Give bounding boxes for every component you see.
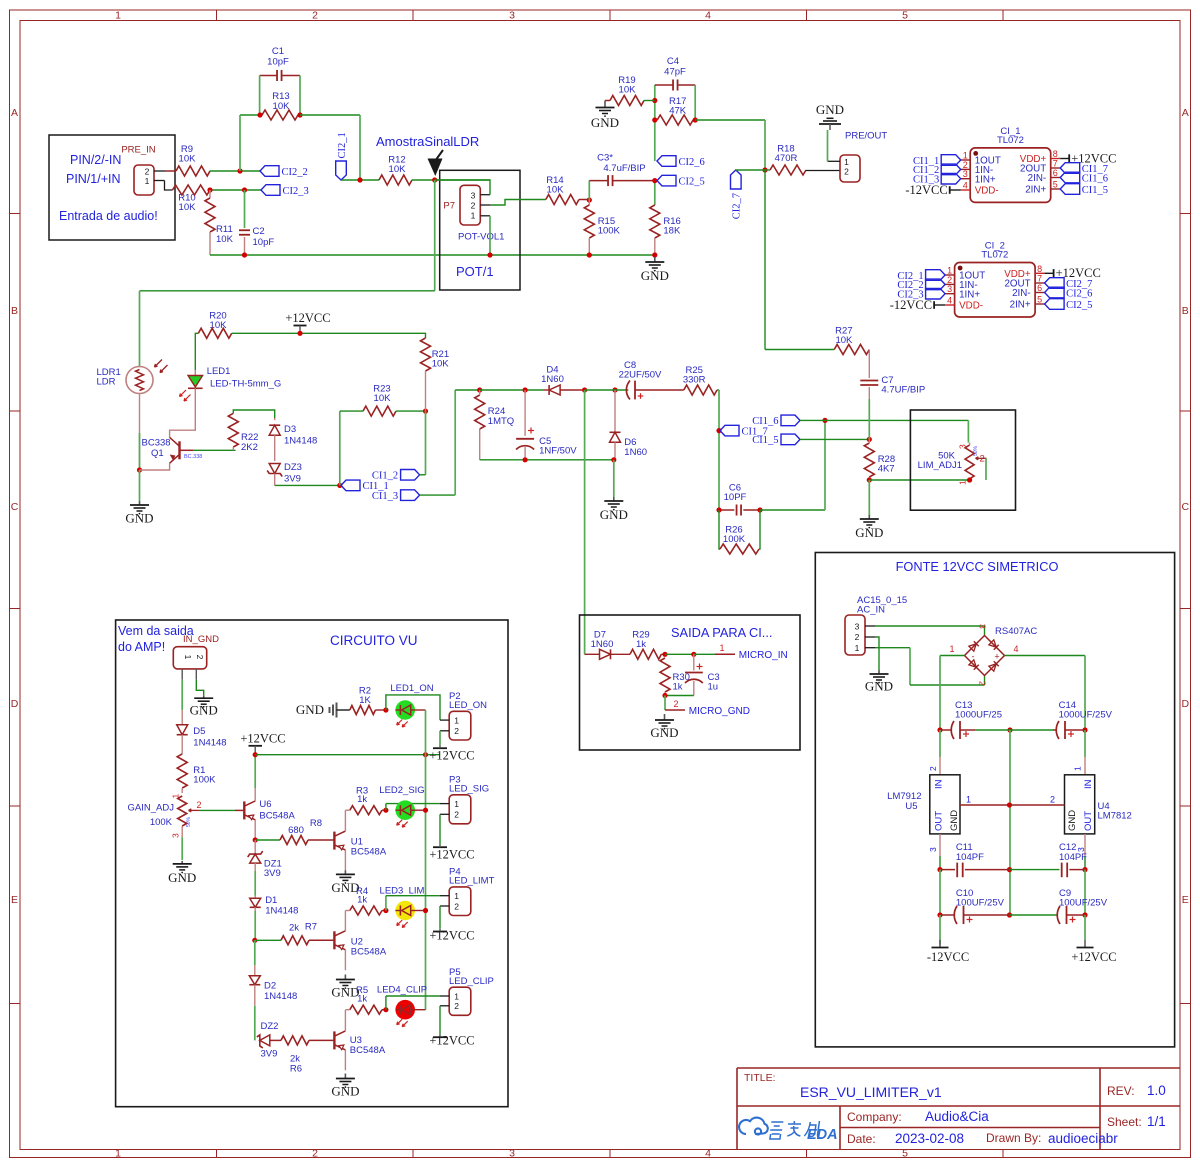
svg-text:Q1: Q1 <box>151 448 164 459</box>
svg-text:CI2_5: CI2_5 <box>679 176 705 187</box>
svg-text:2: 2 <box>844 166 849 176</box>
EasyEDA logo <box>739 1118 768 1135</box>
junction C8 left D6 top <box>612 387 617 392</box>
CI_1 pin 1 1OUT <box>961 159 971 161</box>
svg-text:GND: GND <box>1067 810 1078 831</box>
svg-text:AC_IN: AC_IN <box>857 605 885 616</box>
wire C6 right up to CI1_6 branch <box>760 509 825 511</box>
svg-text:do AMP!: do AMP! <box>118 640 165 654</box>
svg-text:GND: GND <box>125 511 153 526</box>
svg-text:8: 8 <box>1053 149 1058 159</box>
wire R27 left <box>765 349 834 351</box>
svg-text:E: E <box>1182 894 1189 906</box>
junction C2 bottom <box>242 252 247 257</box>
svg-text:1k: 1k <box>357 794 367 805</box>
power +12VCC P3 <box>433 846 447 848</box>
svg-text:3: 3 <box>471 190 476 200</box>
junction R10/R11 node <box>207 187 212 192</box>
wire down to R27 <box>764 170 766 350</box>
svg-text:REV:: REV: <box>1107 1084 1135 1098</box>
ground under D6 <box>613 460 615 497</box>
CI_1 pin 5 2IN+ <box>1051 188 1061 190</box>
U4 OUT down <box>1084 834 1086 856</box>
svg-text:+12VCC: +12VCC <box>429 1034 474 1048</box>
wire LDR bottom <box>139 394 141 471</box>
svg-text:2023-02-08: 2023-02-08 <box>895 1131 964 1146</box>
svg-text:1: 1 <box>454 799 459 809</box>
junction R19 right <box>652 98 657 103</box>
junction R16 bottom rail <box>652 252 657 257</box>
svg-text:2: 2 <box>978 681 988 686</box>
junction U6 emitter node <box>253 837 258 842</box>
junction R24 top <box>477 387 482 392</box>
svg-text:1IN+: 1IN+ <box>975 174 996 185</box>
ground under R16 rail <box>654 257 656 262</box>
svg-text:1: 1 <box>454 716 459 726</box>
wire to MICRO_GND <box>664 696 666 711</box>
svg-text:330R: 330R <box>683 375 706 386</box>
wire to MICRO_IN <box>694 653 715 655</box>
svg-text:LED-TH-5mm_G: LED-TH-5mm_G <box>210 379 281 390</box>
svg-text:GND: GND <box>816 102 844 117</box>
junction R17 left <box>652 117 657 122</box>
junction C6 left <box>716 507 721 512</box>
wire CI2_1 to R12 <box>341 179 379 181</box>
svg-text:6: 6 <box>1053 168 1058 178</box>
net flag CI2_5 <box>657 175 676 186</box>
svg-text:DZ3: DZ3 <box>284 462 302 473</box>
svg-text:10K: 10K <box>216 234 234 245</box>
wire R24 bottom rail <box>480 459 614 461</box>
svg-text:EDA: EDA <box>807 1127 838 1143</box>
svg-text:2: 2 <box>312 1148 318 1160</box>
wire R28 bottom into LIM box <box>869 479 969 481</box>
junction C9 right <box>1082 912 1087 917</box>
svg-text:U5: U5 <box>905 801 917 812</box>
wire LED to rail row1 <box>415 709 426 711</box>
svg-text:2: 2 <box>928 766 938 771</box>
U2 collector wire to R4 <box>344 911 346 931</box>
wire D2 to DZ2 <box>254 1006 256 1041</box>
svg-text:+12VCC: +12VCC <box>240 732 285 746</box>
wire LED to rail <box>415 910 426 912</box>
junction +12VCC rail <box>297 331 302 336</box>
svg-text:8: 8 <box>1037 264 1042 274</box>
svg-text:LED_ON: LED_ON <box>449 700 487 711</box>
svg-text:100K: 100K <box>598 226 621 237</box>
svg-text:R8: R8 <box>310 818 322 829</box>
svg-text:GND: GND <box>600 507 628 522</box>
svg-text:VDD-: VDD- <box>975 186 999 197</box>
svg-text:GND: GND <box>296 702 324 717</box>
svg-text:LED4_CLIP: LED4_CLIP <box>377 985 427 996</box>
svg-text:LED1_ON: LED1_ON <box>390 683 433 694</box>
junction R29/R30 <box>662 652 667 657</box>
probe arrow AmostraSinalLDR <box>428 159 443 177</box>
U4 GND lead <box>1010 804 1065 806</box>
junction R5 LED <box>383 1007 388 1012</box>
net flag CI1_3 <box>941 173 961 184</box>
svg-text:+12VCC: +12VCC <box>429 929 474 943</box>
net flag CI1_6 <box>781 415 800 426</box>
wire C4 R17 left column <box>654 85 656 161</box>
POT/1 annotation box <box>440 170 520 290</box>
svg-text:CIRCUITO VU: CIRCUITO VU <box>330 633 418 648</box>
svg-text:A: A <box>11 107 18 119</box>
svg-text:1: 1 <box>454 891 459 901</box>
wire LED to rail <box>415 1009 426 1011</box>
svg-text:3: 3 <box>978 624 988 629</box>
svg-text:BC548A: BC548A <box>351 847 387 858</box>
junction CI1_1 node <box>337 483 342 488</box>
svg-text:3: 3 <box>928 847 938 852</box>
net flag CI2_3 <box>926 288 946 299</box>
svg-text:TL072: TL072 <box>981 250 1008 261</box>
svg-text:1: 1 <box>1073 766 1083 771</box>
junction R28 bottom <box>867 477 872 482</box>
svg-text:104PF: 104PF <box>1059 852 1087 863</box>
svg-text:1k: 1k <box>636 639 646 650</box>
wire rail R24-D4 <box>480 389 544 391</box>
svg-text:2K2: 2K2 <box>241 442 258 453</box>
wire LED1 cathode to Q1 collector <box>170 388 196 437</box>
CI_2 pin 3 1IN+ <box>945 293 955 295</box>
svg-text:3: 3 <box>509 10 515 22</box>
svg-text:D3: D3 <box>284 424 296 435</box>
svg-text:Drawn By:: Drawn By: <box>986 1131 1041 1145</box>
svg-text:C1: C1 <box>272 46 284 57</box>
wire emitter node to R8 <box>255 839 280 841</box>
svg-text:50%: 50% <box>973 445 979 456</box>
svg-text:1NF/50V: 1NF/50V <box>539 446 577 457</box>
LED LED1_ON green <box>395 700 415 720</box>
svg-text:SAIDA PARA CI...: SAIDA PARA CI... <box>671 625 772 640</box>
svg-text:GND: GND <box>168 870 196 885</box>
wire GAIN_ADJ bottom to GND <box>181 826 183 837</box>
net flag CI2_2 <box>926 279 946 290</box>
junction LED rail <box>423 808 428 813</box>
svg-text:C: C <box>11 501 19 513</box>
svg-text:5: 5 <box>1037 295 1042 305</box>
wire R17 to vertical x765 <box>695 119 765 121</box>
svg-text:2IN+: 2IN+ <box>1010 300 1031 311</box>
ground IN_GND <box>203 695 205 698</box>
svg-text:GND: GND <box>190 703 218 718</box>
wire LED rail vertical <box>425 710 427 1010</box>
wire right column to U4 <box>1084 730 1086 757</box>
svg-text:10K: 10K <box>432 359 450 370</box>
svg-text:18K: 18K <box>663 226 681 237</box>
junction R23 right R21 bottom <box>423 409 428 414</box>
svg-text:1k: 1k <box>673 682 683 693</box>
SAIDA PARA CI annotation box <box>580 615 801 750</box>
svg-text:LIM_ADJ1: LIM_ADJ1 <box>918 460 962 471</box>
svg-text:Audio&Cia: Audio&Cia <box>925 1109 989 1124</box>
wire PRE/OUT pin1 to GND <box>827 130 829 161</box>
wire R29 to C3 <box>665 653 694 655</box>
op-amp CI_2 TL072 <box>955 263 1036 318</box>
svg-text:47pF: 47pF <box>664 67 686 78</box>
svg-text:CI2_2: CI2_2 <box>282 167 308 178</box>
svg-text:4: 4 <box>705 1148 711 1160</box>
CI_1 pin 3 1IN+ <box>961 178 971 180</box>
wire left column to U5 <box>939 730 941 757</box>
svg-text:1.0: 1.0 <box>1147 1083 1166 1098</box>
svg-text:D5: D5 <box>193 726 205 737</box>
svg-text:PRE_IN: PRE_IN <box>121 145 155 156</box>
svg-text:D2: D2 <box>264 981 276 992</box>
svg-text:4.7uF/BIP: 4.7uF/BIP <box>603 163 645 174</box>
svg-text:MICRO_IN: MICRO_IN <box>739 650 788 661</box>
ground under R28 <box>868 480 870 516</box>
svg-text:1N60: 1N60 <box>624 447 647 458</box>
svg-text:1: 1 <box>949 644 954 654</box>
net flag CI1_7 <box>720 425 739 436</box>
Q1 base wire <box>180 449 194 451</box>
net flag CI1_5 <box>1060 184 1080 195</box>
svg-text:D1: D1 <box>265 895 277 906</box>
svg-text:Company:: Company: <box>847 1110 902 1124</box>
svg-text:CI2_6: CI2_6 <box>1066 288 1092 299</box>
wire R9 to CI2_2 <box>210 170 260 172</box>
junction R10/C2 node <box>242 187 247 192</box>
svg-text:2IN+: 2IN+ <box>1025 185 1046 196</box>
wire bridge minus to left column <box>940 655 965 657</box>
net flag CI1_5 <box>781 434 800 445</box>
svg-text:BC548A: BC548A <box>351 947 387 958</box>
wire R10 to CI2_3 <box>210 189 261 191</box>
svg-text:CI1_6: CI1_6 <box>752 416 778 427</box>
svg-text:1N4148: 1N4148 <box>193 738 226 749</box>
wire center column down <box>1009 730 1011 915</box>
junction R13 left <box>257 112 262 117</box>
svg-text:-12VCC: -12VCC <box>905 183 947 197</box>
svg-text:LED_CLIP: LED_CLIP <box>449 976 494 987</box>
title block <box>737 1068 1180 1150</box>
svg-text:C: C <box>1182 501 1190 513</box>
junction C14 right <box>1082 727 1087 732</box>
svg-text:10K: 10K <box>374 393 392 404</box>
svg-text:10K: 10K <box>179 202 197 213</box>
power +12VCC P4 <box>433 931 447 933</box>
svg-text:BC548A: BC548A <box>350 1045 386 1056</box>
svg-text:P7: P7 <box>443 201 455 212</box>
junction C6 right <box>757 507 762 512</box>
svg-text:POT-VOL1: POT-VOL1 <box>458 232 504 243</box>
svg-text:audioeciabr: audioeciabr <box>1048 1131 1118 1146</box>
svg-text:2: 2 <box>1050 795 1055 805</box>
svg-text:470R: 470R <box>775 153 798 164</box>
svg-text:+12VCC: +12VCC <box>285 311 330 325</box>
svg-text:+12VCC: +12VCC <box>429 848 474 862</box>
input annotation box <box>49 135 175 240</box>
wire AC pin3 to bridge <box>875 626 985 636</box>
junction C3 top <box>691 652 696 657</box>
net flag CI1_2 <box>941 164 961 175</box>
Q1 emitter wire <box>140 464 170 471</box>
svg-text:LM7812: LM7812 <box>1098 811 1132 822</box>
svg-text:1: 1 <box>115 1148 121 1160</box>
wire R25 right down <box>717 389 719 391</box>
FONTE 12VCC SIMETRICO annotation box <box>815 553 1174 1047</box>
svg-text:OUT: OUT <box>934 811 945 831</box>
svg-text:+12VCC: +12VCC <box>1071 950 1116 964</box>
wire P3 pin2 to +12VCC <box>439 814 441 844</box>
svg-text:10K: 10K <box>619 85 637 96</box>
junction LIM pin1 <box>967 477 972 482</box>
junction R28 top C7 bottom <box>867 437 872 442</box>
junction C5 bottom <box>523 457 528 462</box>
CI_2 pin 7 2OUT <box>1035 282 1045 284</box>
svg-text:10K: 10K <box>547 185 565 196</box>
svg-text:2: 2 <box>145 166 150 176</box>
svg-text:4: 4 <box>705 10 711 22</box>
LIM_ADJ1 annotation box <box>910 410 1015 510</box>
svg-text:4: 4 <box>947 296 952 306</box>
svg-text:+: + <box>994 652 999 662</box>
CI_1 pin 8 VDD+ <box>1051 158 1061 160</box>
wire DZ3 to CI1_1 <box>275 484 340 486</box>
wire R21 node to CI1_2 <box>425 411 427 475</box>
svg-text:6: 6 <box>1037 283 1042 293</box>
svg-text:TL072: TL072 <box>997 135 1024 146</box>
power +12VCC row1 <box>433 747 447 749</box>
junction LED rail <box>423 908 428 913</box>
svg-text:2: 2 <box>673 699 678 709</box>
junction +12VCC VU rail <box>253 752 258 757</box>
svg-text:3: 3 <box>855 621 860 631</box>
svg-text:1IN+: 1IN+ <box>959 289 980 300</box>
svg-text:2: 2 <box>454 810 459 820</box>
U3 collector wire to R5 <box>344 1010 346 1031</box>
junction Q1 emitter node <box>137 467 142 472</box>
wire R20 left to LED1 <box>195 333 198 370</box>
svg-text:PIN/2/-IN: PIN/2/-IN <box>70 153 121 167</box>
net flag CI1_1 <box>341 480 360 491</box>
op-amp CI_1 TL072 <box>970 148 1050 203</box>
junction R18 node <box>762 167 767 172</box>
wire POT pin2 to R14 <box>491 200 546 206</box>
svg-text:CI1_5: CI1_5 <box>1082 185 1108 196</box>
svg-text:4: 4 <box>1013 644 1018 654</box>
wire C7 to R28 <box>868 399 870 439</box>
svg-text:GND: GND <box>641 268 669 283</box>
wire R13 left to R9 node <box>240 114 260 116</box>
wire +12VCC rail right <box>255 754 440 756</box>
svg-text:PIN/1/+IN: PIN/1/+IN <box>66 172 121 186</box>
svg-text:4K7: 4K7 <box>878 464 895 475</box>
svg-text:GND: GND <box>855 525 883 540</box>
U2 emitter to GND <box>344 950 346 971</box>
wire CI1_1 node up to R23 <box>339 411 341 485</box>
svg-text:1: 1 <box>958 480 968 485</box>
wire bottom rail y=255 <box>210 254 655 256</box>
svg-text:LED1: LED1 <box>207 366 231 377</box>
junction R2 LED1_ON <box>383 707 388 712</box>
net flag CI1_7 <box>1060 163 1080 174</box>
svg-text:ESR_VU_LIMITER_v1: ESR_VU_LIMITER_v1 <box>800 1084 942 1100</box>
svg-text:LED_SIG: LED_SIG <box>449 784 489 795</box>
junction C11 center <box>1007 867 1012 872</box>
junction LED rail <box>423 752 428 757</box>
svg-text:10K: 10K <box>835 335 853 346</box>
svg-text:100K: 100K <box>193 775 216 786</box>
junction center GND <box>1007 802 1012 807</box>
svg-text:10K: 10K <box>273 101 291 112</box>
CI_1 pin 6 2IN- <box>1051 177 1061 179</box>
svg-text:1MTQ: 1MTQ <box>488 416 514 427</box>
CI_2 pin 5 2IN+ <box>1035 303 1045 305</box>
CI_1 pin 7 2OUT <box>1051 167 1061 169</box>
junction C5 top <box>523 387 528 392</box>
svg-text:1N60: 1N60 <box>541 374 564 385</box>
U5 OUT down <box>939 834 941 856</box>
svg-text:MICRO_GND: MICRO_GND <box>689 706 750 717</box>
wire IN_GND pin1 down <box>181 680 183 711</box>
svg-text:2: 2 <box>454 726 459 736</box>
ground SAIDA box <box>664 714 666 720</box>
svg-text:10pF: 10pF <box>267 57 289 68</box>
net flag CI1_3 <box>401 490 420 501</box>
svg-text:3V9: 3V9 <box>284 474 301 485</box>
svg-text:3: 3 <box>509 1148 515 1160</box>
svg-text:-12VCC: -12VCC <box>927 950 969 964</box>
svg-text:C4: C4 <box>667 56 679 67</box>
svg-text:1000UF/25V: 1000UF/25V <box>1059 710 1113 721</box>
svg-text:1: 1 <box>115 10 121 22</box>
junction R4 LED <box>383 908 388 913</box>
svg-text:100K: 100K <box>723 534 746 545</box>
svg-text:B: B <box>11 305 18 317</box>
svg-text:2IN-: 2IN- <box>1012 288 1031 299</box>
net flag CI1_6 <box>1060 172 1080 183</box>
svg-text:7: 7 <box>1037 274 1042 284</box>
ground AC_IN <box>878 670 880 674</box>
svg-text:1N4148: 1N4148 <box>284 436 317 447</box>
svg-text:1: 1 <box>719 643 724 653</box>
svg-text:VDD-: VDD- <box>959 301 983 312</box>
svg-text:IN: IN <box>934 779 945 789</box>
svg-text:5: 5 <box>1053 180 1058 190</box>
net flag CI2_2 <box>260 166 279 177</box>
svg-text:BC.338: BC.338 <box>184 454 202 460</box>
svg-text:2k: 2k <box>289 923 299 934</box>
svg-text:CI2_5: CI2_5 <box>1066 300 1092 311</box>
junction C10 center <box>1007 912 1012 917</box>
CI_2 pin 1 1OUT <box>945 274 955 276</box>
svg-text:5: 5 <box>902 10 908 22</box>
svg-text:3: 3 <box>963 169 968 179</box>
wire POT pin1 down to rail <box>489 216 491 255</box>
svg-text:LDR: LDR <box>97 377 116 388</box>
power -12VCC at CI_2 <box>933 301 935 309</box>
power +12VCC P5 <box>433 1036 447 1038</box>
junction C10 left <box>937 912 942 917</box>
svg-text:CI2_7: CI2_7 <box>732 193 743 219</box>
CIRCUITO VU annotation box <box>116 620 508 1107</box>
svg-text:3V9: 3V9 <box>264 868 281 879</box>
junction R16 top C3 right <box>652 178 657 183</box>
net flag CI2_6 <box>1045 287 1065 298</box>
CI_2 pin 6 2IN- <box>1035 292 1045 294</box>
power -12VCC at CI_1 <box>949 186 951 194</box>
svg-text:1u: 1u <box>708 682 719 693</box>
junction R14/R15/C3 <box>587 197 592 202</box>
svg-text:680: 680 <box>288 825 304 836</box>
net flag CI2_1 <box>336 161 347 180</box>
svg-text:+12VCC: +12VCC <box>429 749 474 763</box>
svg-text:D: D <box>11 698 19 710</box>
